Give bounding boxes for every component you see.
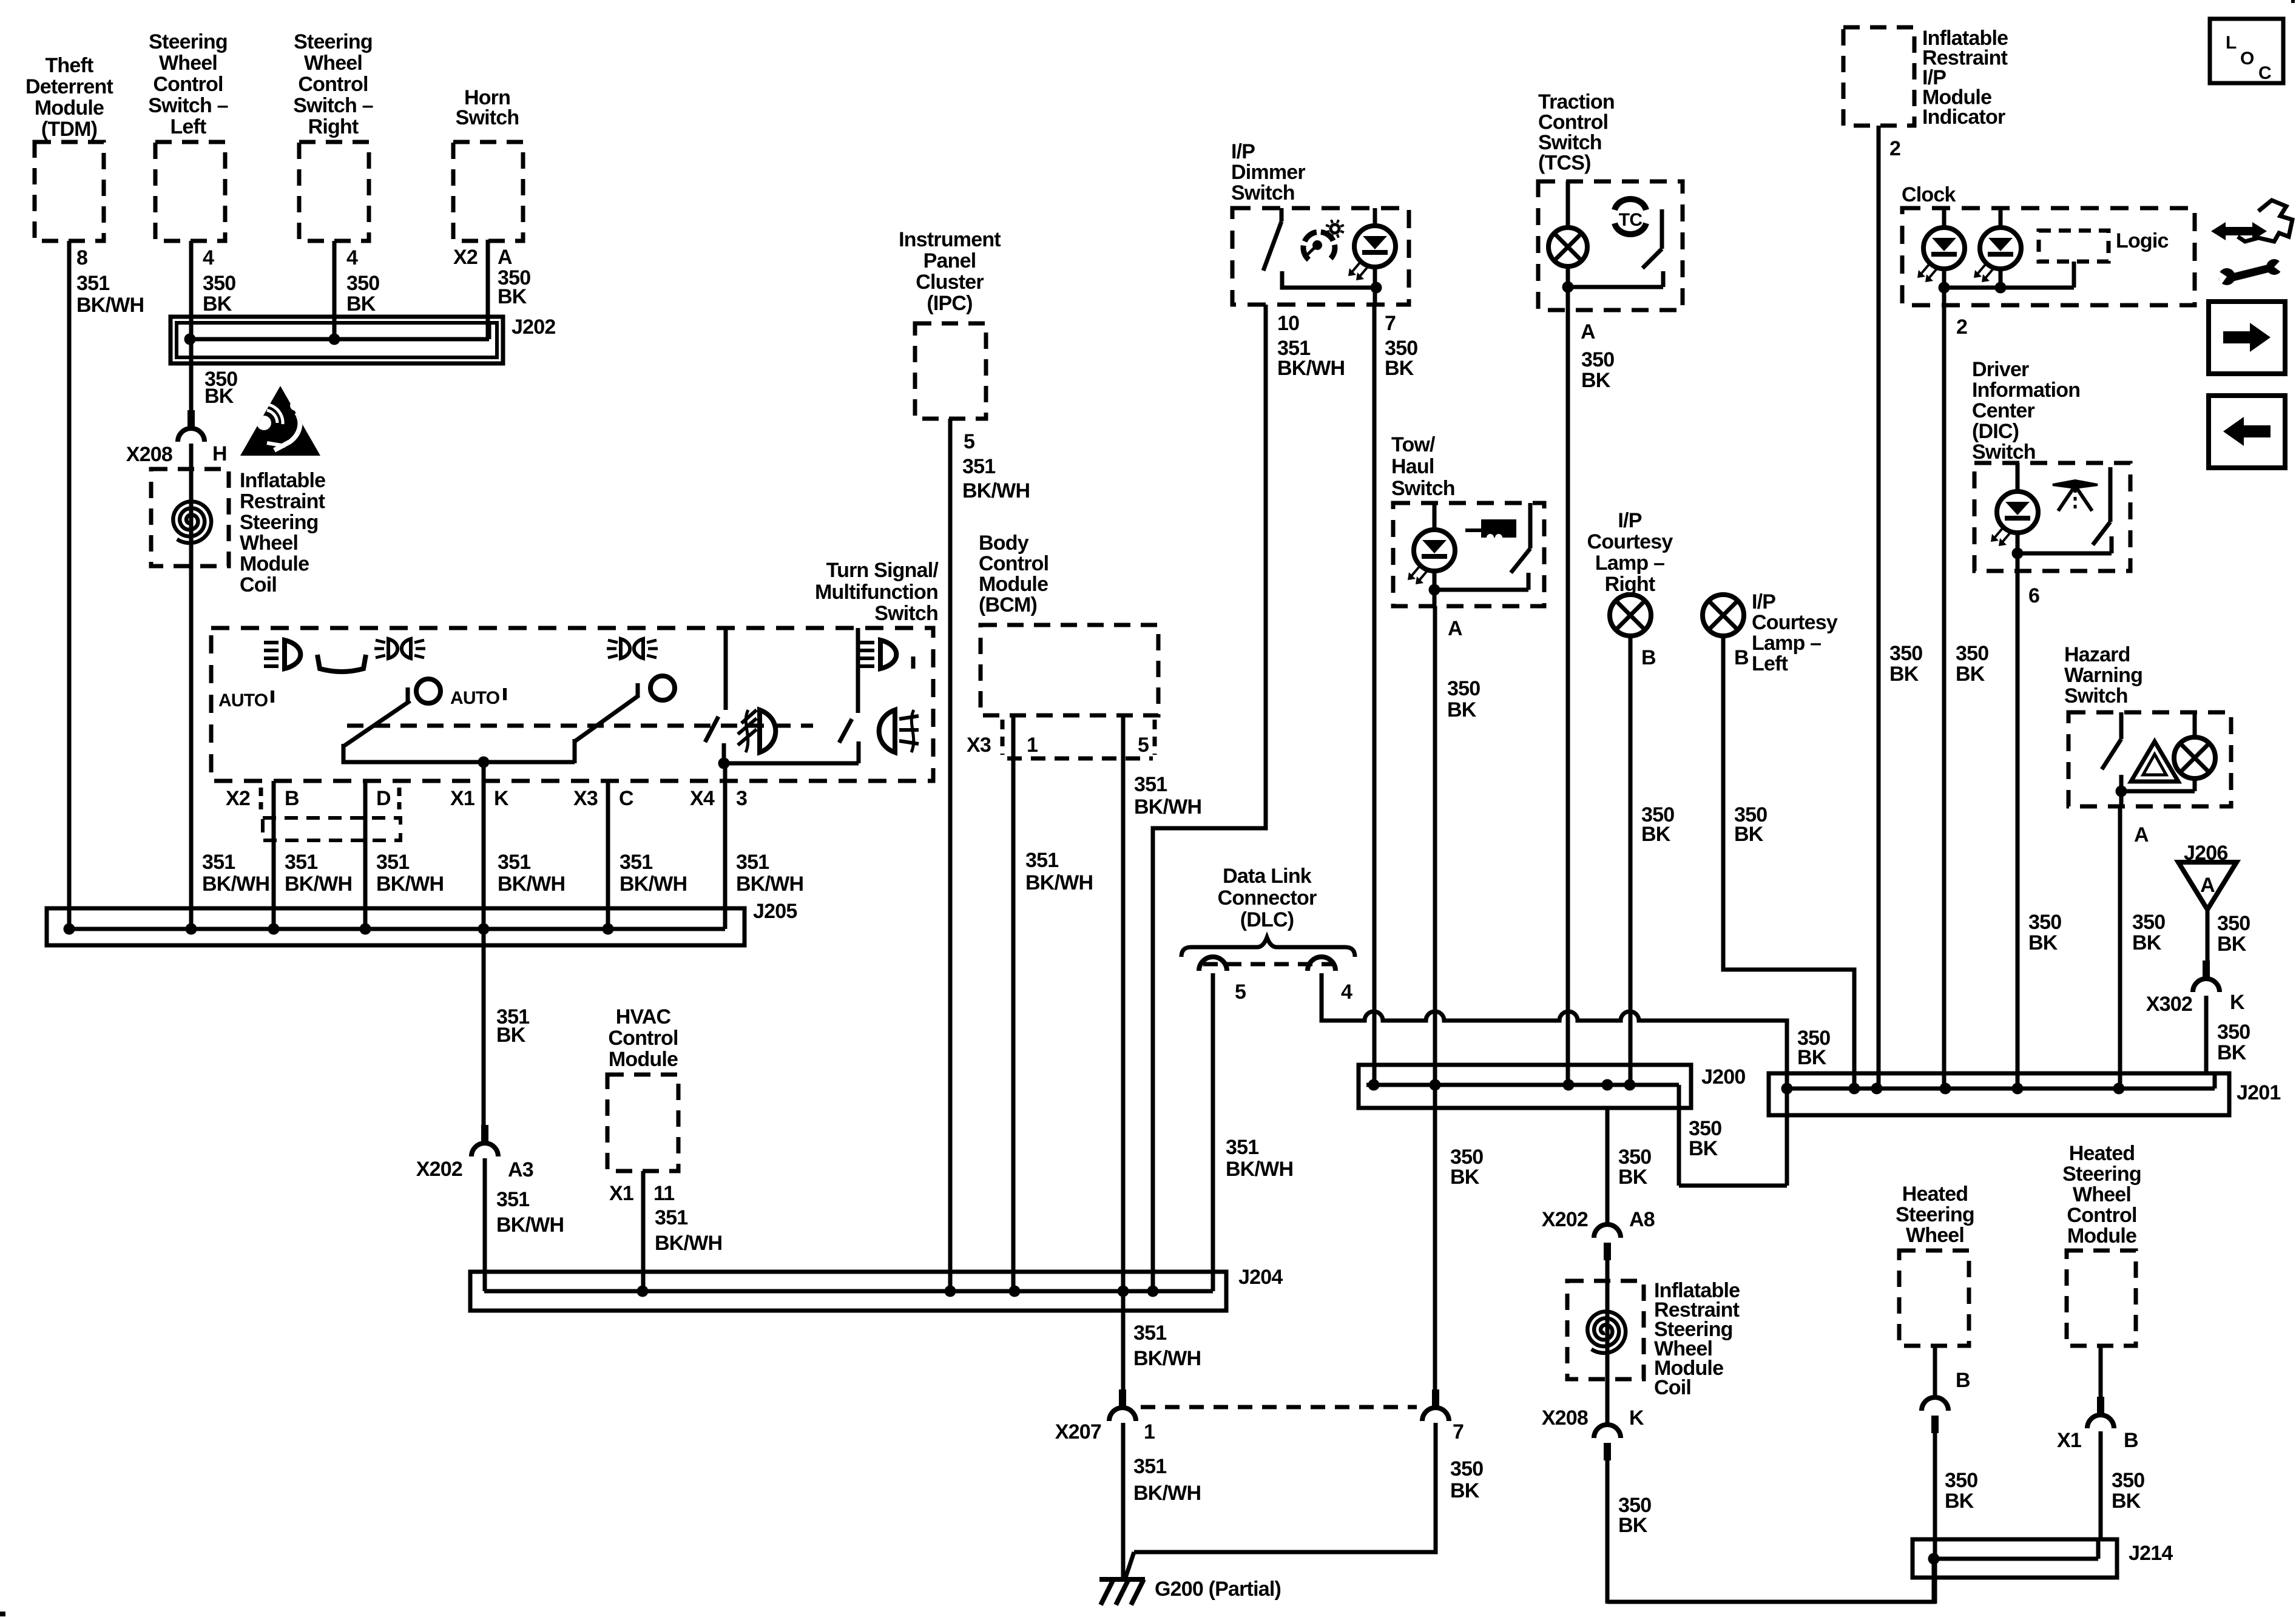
svg-text:350: 350 xyxy=(1889,642,1922,665)
svg-text:X1: X1 xyxy=(2057,1429,2081,1452)
svg-text:Coil: Coil xyxy=(240,573,277,596)
svg-text:BK: BK xyxy=(346,292,376,316)
svg-text:A: A xyxy=(498,246,512,269)
svg-text:A3: A3 xyxy=(508,1158,533,1181)
svg-text:Theft: Theft xyxy=(45,54,93,77)
svg-text:X208: X208 xyxy=(126,443,172,466)
svg-text:350: 350 xyxy=(346,272,379,295)
svg-text:Switch: Switch xyxy=(1972,441,2036,464)
svg-text:11: 11 xyxy=(653,1182,674,1205)
svg-text:BK: BK xyxy=(1581,369,1611,392)
svg-text:351: 351 xyxy=(76,272,109,295)
svg-text:351: 351 xyxy=(1025,849,1058,872)
svg-text:X202: X202 xyxy=(1542,1208,1588,1231)
svg-text:TC: TC xyxy=(1619,210,1643,230)
svg-text:X3: X3 xyxy=(967,734,991,757)
svg-text:351: 351 xyxy=(1133,1322,1166,1345)
svg-text:Wheel: Wheel xyxy=(240,532,298,555)
svg-text:K: K xyxy=(494,787,509,810)
svg-text:A8: A8 xyxy=(1629,1208,1655,1231)
svg-text:C: C xyxy=(619,787,633,810)
svg-text:(TCS): (TCS) xyxy=(1538,152,1591,175)
svg-text:Wheel: Wheel xyxy=(159,52,217,75)
svg-text:Wheel: Wheel xyxy=(304,52,362,75)
svg-text:X1: X1 xyxy=(609,1182,633,1205)
svg-text:5: 5 xyxy=(964,430,974,453)
svg-text:BK: BK xyxy=(1734,823,1764,846)
svg-text:Switch –: Switch – xyxy=(148,94,228,117)
svg-text:AUTO: AUTO xyxy=(218,690,268,711)
svg-text:BK/WH: BK/WH xyxy=(962,479,1030,502)
svg-text:351: 351 xyxy=(655,1206,687,1229)
svg-text:Switch: Switch xyxy=(2064,684,2128,707)
svg-text:Center: Center xyxy=(1972,399,2034,422)
svg-text:BK: BK xyxy=(1447,698,1477,721)
svg-text:5: 5 xyxy=(1138,734,1149,757)
svg-text:Steering: Steering xyxy=(240,511,319,534)
svg-text:6: 6 xyxy=(2028,584,2039,607)
svg-text:Control: Control xyxy=(2067,1204,2136,1227)
svg-text:Multifunction: Multifunction xyxy=(815,581,938,604)
svg-text:Module: Module xyxy=(240,553,309,576)
svg-text:Wheel: Wheel xyxy=(1906,1224,1964,1247)
svg-text:X2: X2 xyxy=(453,246,478,269)
svg-text:J204: J204 xyxy=(1238,1266,1283,1289)
svg-text:Control: Control xyxy=(979,552,1048,575)
svg-text:351: 351 xyxy=(1134,773,1167,796)
svg-text:351: 351 xyxy=(376,851,409,874)
svg-text:BK/WH: BK/WH xyxy=(1025,871,1093,894)
svg-text:BK: BK xyxy=(204,385,234,408)
svg-text:J201: J201 xyxy=(2237,1081,2280,1104)
svg-text:BK: BK xyxy=(1618,1166,1648,1189)
svg-text:350: 350 xyxy=(1956,642,1988,665)
svg-text:Switch: Switch xyxy=(456,106,519,129)
svg-text:HVAC: HVAC xyxy=(616,1005,671,1028)
svg-text:Panel: Panel xyxy=(923,249,976,272)
svg-text:BK/WH: BK/WH xyxy=(1134,795,1201,819)
svg-text:BK/WH: BK/WH xyxy=(1133,1347,1201,1370)
svg-text:Information: Information xyxy=(1972,379,2080,402)
svg-text:BK: BK xyxy=(2112,1490,2141,1513)
svg-text:7: 7 xyxy=(1385,312,1396,335)
svg-text:X1: X1 xyxy=(450,787,474,810)
svg-text:Control: Control xyxy=(1538,111,1608,134)
svg-text:A: A xyxy=(2134,823,2149,846)
svg-text:350: 350 xyxy=(1945,1469,1977,1492)
svg-text:Module: Module xyxy=(979,573,1048,596)
svg-text:B: B xyxy=(1956,1369,1970,1392)
svg-text:(IPC): (IPC) xyxy=(927,292,972,315)
svg-text:BK/WH: BK/WH xyxy=(285,873,352,896)
svg-text:BK: BK xyxy=(498,285,527,308)
svg-text:A: A xyxy=(2200,874,2215,897)
svg-text:1: 1 xyxy=(1027,734,1038,757)
svg-text:J205: J205 xyxy=(753,900,797,923)
svg-text:BK: BK xyxy=(1450,1166,1480,1189)
svg-text:BK/WH: BK/WH xyxy=(376,873,444,896)
svg-text:Switch: Switch xyxy=(1538,131,1602,154)
svg-text:BK: BK xyxy=(1450,1479,1480,1502)
svg-text:350: 350 xyxy=(2132,911,2165,934)
svg-text:351: 351 xyxy=(1133,1455,1166,1478)
svg-text:Cluster: Cluster xyxy=(916,271,984,294)
svg-text:K: K xyxy=(1629,1406,1644,1430)
svg-text:Right: Right xyxy=(308,115,359,138)
svg-text:Connector: Connector xyxy=(1218,886,1317,910)
svg-text:J200: J200 xyxy=(1701,1065,1745,1089)
svg-text:2: 2 xyxy=(1889,137,1900,160)
svg-text:351: 351 xyxy=(496,1188,529,1211)
svg-text:X3: X3 xyxy=(573,787,598,810)
svg-text:J202: J202 xyxy=(512,316,555,339)
svg-text:Hazard: Hazard xyxy=(2064,643,2130,666)
svg-text:4: 4 xyxy=(203,246,214,269)
svg-text:Control: Control xyxy=(608,1027,678,1050)
svg-text:350: 350 xyxy=(2028,911,2061,934)
svg-text:Data Link: Data Link xyxy=(1223,865,1312,888)
svg-text:Courtesy: Courtesy xyxy=(1587,530,1673,553)
svg-text:350: 350 xyxy=(1581,348,1614,371)
svg-text:BK/WH: BK/WH xyxy=(76,294,144,317)
svg-text:Module: Module xyxy=(35,96,104,120)
svg-text:351: 351 xyxy=(736,851,769,874)
svg-text:350: 350 xyxy=(203,272,235,295)
svg-text:(DIC): (DIC) xyxy=(1972,420,2019,443)
svg-text:AUTO: AUTO xyxy=(450,688,500,708)
svg-text:Switch –: Switch – xyxy=(293,94,373,117)
svg-text:Body: Body xyxy=(979,532,1029,555)
svg-text:B: B xyxy=(1734,646,1749,669)
svg-text:Control: Control xyxy=(153,73,223,96)
svg-text:Indicator: Indicator xyxy=(1922,106,2005,129)
svg-text:BK: BK xyxy=(1641,823,1671,846)
svg-text:Steering: Steering xyxy=(1896,1203,1974,1226)
svg-text:351: 351 xyxy=(620,851,652,874)
svg-text:Left: Left xyxy=(1752,652,1788,675)
svg-text:351: 351 xyxy=(498,851,530,874)
svg-text:BK/WH: BK/WH xyxy=(620,873,687,896)
svg-text:BK/WH: BK/WH xyxy=(496,1214,564,1237)
svg-text:Instrument: Instrument xyxy=(899,228,1001,251)
svg-text:Coil: Coil xyxy=(1654,1376,1691,1399)
svg-text:10: 10 xyxy=(1277,312,1299,335)
svg-text:Courtesy: Courtesy xyxy=(1752,611,1838,634)
svg-text:Heated: Heated xyxy=(2069,1142,2135,1165)
svg-text:A: A xyxy=(1448,617,1462,640)
svg-text:(BCM): (BCM) xyxy=(979,593,1037,616)
svg-text:Tow/: Tow/ xyxy=(1391,433,1436,456)
svg-text:K: K xyxy=(2230,991,2245,1014)
svg-text:BK: BK xyxy=(1689,1137,1718,1160)
svg-text:Turn Signal/: Turn Signal/ xyxy=(826,559,939,582)
svg-text:Deterrent: Deterrent xyxy=(25,75,113,98)
svg-text:Switch: Switch xyxy=(1231,181,1295,204)
svg-text:BK: BK xyxy=(2217,933,2247,956)
svg-text:D: D xyxy=(376,787,391,810)
svg-text:B: B xyxy=(1641,646,1656,669)
svg-text:Heated: Heated xyxy=(1902,1183,1968,1206)
svg-text:O: O xyxy=(2240,49,2254,69)
svg-text:5: 5 xyxy=(1235,981,1246,1004)
svg-text:Lamp –: Lamp – xyxy=(1595,552,1664,575)
svg-text:X202: X202 xyxy=(416,1158,462,1181)
svg-text:Clock: Clock xyxy=(1902,183,1956,206)
svg-text:1: 1 xyxy=(1144,1420,1155,1443)
svg-text:Control: Control xyxy=(298,73,368,96)
svg-text:X2: X2 xyxy=(226,787,250,810)
svg-text:BK/WH: BK/WH xyxy=(1226,1158,1293,1181)
svg-text:Wheel: Wheel xyxy=(2073,1183,2131,1206)
svg-text:351: 351 xyxy=(202,851,235,874)
svg-text:Inflatable: Inflatable xyxy=(240,469,325,492)
svg-text:X207: X207 xyxy=(1055,1420,1101,1443)
svg-text:Dimmer: Dimmer xyxy=(1231,161,1305,184)
svg-text:BK/WH: BK/WH xyxy=(1277,357,1345,380)
svg-text:351: 351 xyxy=(1226,1136,1258,1159)
svg-text:BK: BK xyxy=(2028,931,2058,954)
svg-text:3: 3 xyxy=(736,787,747,810)
svg-text:Warning: Warning xyxy=(2064,664,2142,687)
svg-text:BK/WH: BK/WH xyxy=(202,873,269,896)
svg-text:BK: BK xyxy=(1889,663,1919,686)
svg-text:Module: Module xyxy=(2067,1224,2136,1247)
svg-text:BK: BK xyxy=(496,1024,526,1047)
svg-text:BK: BK xyxy=(1945,1490,1974,1513)
svg-text:I/P: I/P xyxy=(1752,590,1775,613)
svg-text:BK: BK xyxy=(1797,1046,1827,1069)
svg-text:G200 (Partial): G200 (Partial) xyxy=(1155,1578,1281,1601)
svg-text:X4: X4 xyxy=(690,787,715,810)
svg-text:Restraint: Restraint xyxy=(240,490,325,513)
svg-text:350: 350 xyxy=(2112,1469,2144,1492)
svg-text:BK: BK xyxy=(203,292,232,316)
svg-text:BK: BK xyxy=(2132,931,2162,954)
svg-text:4: 4 xyxy=(1341,981,1352,1004)
svg-text:351: 351 xyxy=(962,455,995,478)
svg-text:L: L xyxy=(2226,33,2237,53)
svg-text:4: 4 xyxy=(346,246,358,269)
svg-text:(DLC): (DLC) xyxy=(1240,908,1294,931)
svg-text:Left: Left xyxy=(170,115,206,138)
svg-text:350: 350 xyxy=(2217,912,2250,935)
svg-text:Traction: Traction xyxy=(1538,90,1615,113)
svg-text:BK: BK xyxy=(1618,1514,1648,1537)
svg-text:I/P: I/P xyxy=(1231,140,1255,163)
svg-text:351: 351 xyxy=(285,851,317,874)
svg-text:B: B xyxy=(2124,1429,2138,1452)
svg-text:C: C xyxy=(2258,63,2271,83)
svg-text:Steering: Steering xyxy=(2062,1163,2141,1186)
svg-text:BK: BK xyxy=(2217,1041,2247,1064)
svg-text:BK/WH: BK/WH xyxy=(655,1232,722,1255)
svg-text:BK: BK xyxy=(1385,357,1414,380)
svg-text:350: 350 xyxy=(2217,1021,2250,1044)
svg-text:BK/WH: BK/WH xyxy=(736,873,803,896)
svg-text:B: B xyxy=(285,787,299,810)
svg-text:Haul: Haul xyxy=(1391,455,1434,478)
svg-text:H: H xyxy=(212,442,227,465)
svg-text:(TDM): (TDM) xyxy=(41,118,97,141)
svg-text:J214: J214 xyxy=(2129,1542,2173,1565)
svg-text:BK/WH: BK/WH xyxy=(498,873,565,896)
svg-text:X302: X302 xyxy=(2146,993,2192,1016)
svg-text:Driver: Driver xyxy=(1972,358,2029,381)
svg-text:2: 2 xyxy=(1956,316,1967,339)
svg-text:Steering: Steering xyxy=(294,30,373,53)
svg-text:Logic: Logic xyxy=(2116,229,2169,252)
svg-text:Steering: Steering xyxy=(149,30,228,53)
svg-text:BK: BK xyxy=(1956,663,1985,686)
svg-text:350: 350 xyxy=(1447,677,1480,700)
svg-text:I/P: I/P xyxy=(1618,509,1641,532)
svg-text:BK/WH: BK/WH xyxy=(1133,1482,1201,1505)
svg-text:A: A xyxy=(1581,320,1595,343)
svg-text:350: 350 xyxy=(1450,1457,1483,1480)
svg-text:Switch: Switch xyxy=(874,602,938,625)
svg-text:Switch: Switch xyxy=(1391,477,1455,500)
svg-text:Module: Module xyxy=(609,1048,678,1071)
svg-text:8: 8 xyxy=(76,246,87,269)
svg-text:X208: X208 xyxy=(1542,1406,1588,1430)
svg-text:7: 7 xyxy=(1453,1420,1464,1443)
svg-text:Lamp –: Lamp – xyxy=(1752,632,1821,655)
